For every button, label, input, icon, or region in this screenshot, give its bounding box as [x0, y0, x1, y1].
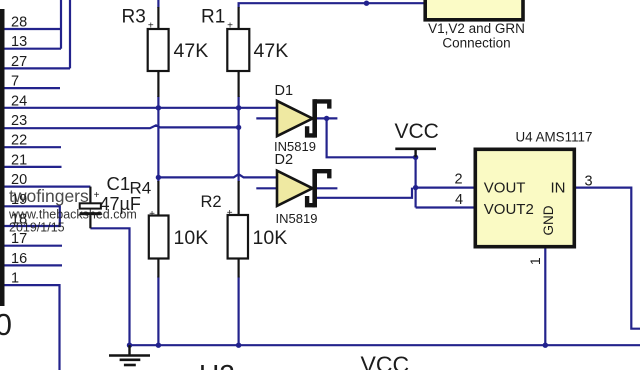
- svg-text:27: 27: [11, 54, 27, 70]
- svg-text:IN5819: IN5819: [276, 211, 318, 226]
- svg-text:16: 16: [11, 251, 27, 267]
- svg-text:20: 20: [11, 172, 27, 188]
- svg-text:21: 21: [11, 152, 27, 168]
- svg-text:2: 2: [455, 172, 463, 188]
- svg-text:18: 18: [11, 212, 27, 228]
- svg-text:+: +: [149, 209, 155, 220]
- svg-text:R2: R2: [201, 193, 222, 211]
- svg-text:+: +: [227, 21, 233, 32]
- svg-text:VOUT2: VOUT2: [484, 201, 534, 218]
- svg-text:U4 AMS1117: U4 AMS1117: [516, 130, 593, 145]
- svg-text:7: 7: [11, 74, 19, 90]
- svg-text:+: +: [148, 21, 154, 32]
- svg-text:VCC: VCC: [395, 120, 439, 143]
- svg-text:VOUT: VOUT: [484, 180, 526, 197]
- svg-text:19: 19: [11, 192, 27, 208]
- svg-text:10K: 10K: [174, 227, 209, 249]
- svg-text:R1: R1: [201, 7, 225, 28]
- svg-text:C1: C1: [107, 173, 131, 194]
- svg-text:4: 4: [455, 192, 463, 208]
- svg-text:+: +: [227, 208, 233, 219]
- svg-text:IN: IN: [551, 180, 566, 197]
- svg-text:13: 13: [11, 34, 27, 50]
- svg-text:+: +: [94, 190, 100, 201]
- svg-text:D2: D2: [275, 152, 294, 168]
- svg-text:3: 3: [585, 174, 593, 190]
- svg-text:R3: R3: [122, 7, 146, 28]
- svg-text:47K: 47K: [254, 40, 289, 62]
- svg-text:1: 1: [11, 271, 19, 287]
- svg-text:23: 23: [11, 113, 27, 129]
- svg-text:R4: R4: [130, 179, 152, 198]
- svg-text:10K: 10K: [253, 227, 288, 249]
- svg-text:GND: GND: [541, 205, 556, 235]
- svg-text:D1: D1: [275, 83, 294, 99]
- svg-text:22: 22: [11, 133, 27, 149]
- svg-text:0: 0: [0, 308, 12, 342]
- svg-text:28: 28: [11, 15, 27, 31]
- svg-text:VCC: VCC: [361, 352, 410, 370]
- svg-text:U2: U2: [199, 359, 235, 370]
- svg-text:17: 17: [11, 231, 27, 247]
- svg-text:24: 24: [11, 93, 27, 109]
- svg-text:Connection: Connection: [442, 36, 510, 51]
- svg-text:1: 1: [527, 257, 543, 265]
- svg-text:V1,V2 and GRN: V1,V2 and GRN: [428, 21, 525, 36]
- svg-text:47K: 47K: [174, 40, 209, 62]
